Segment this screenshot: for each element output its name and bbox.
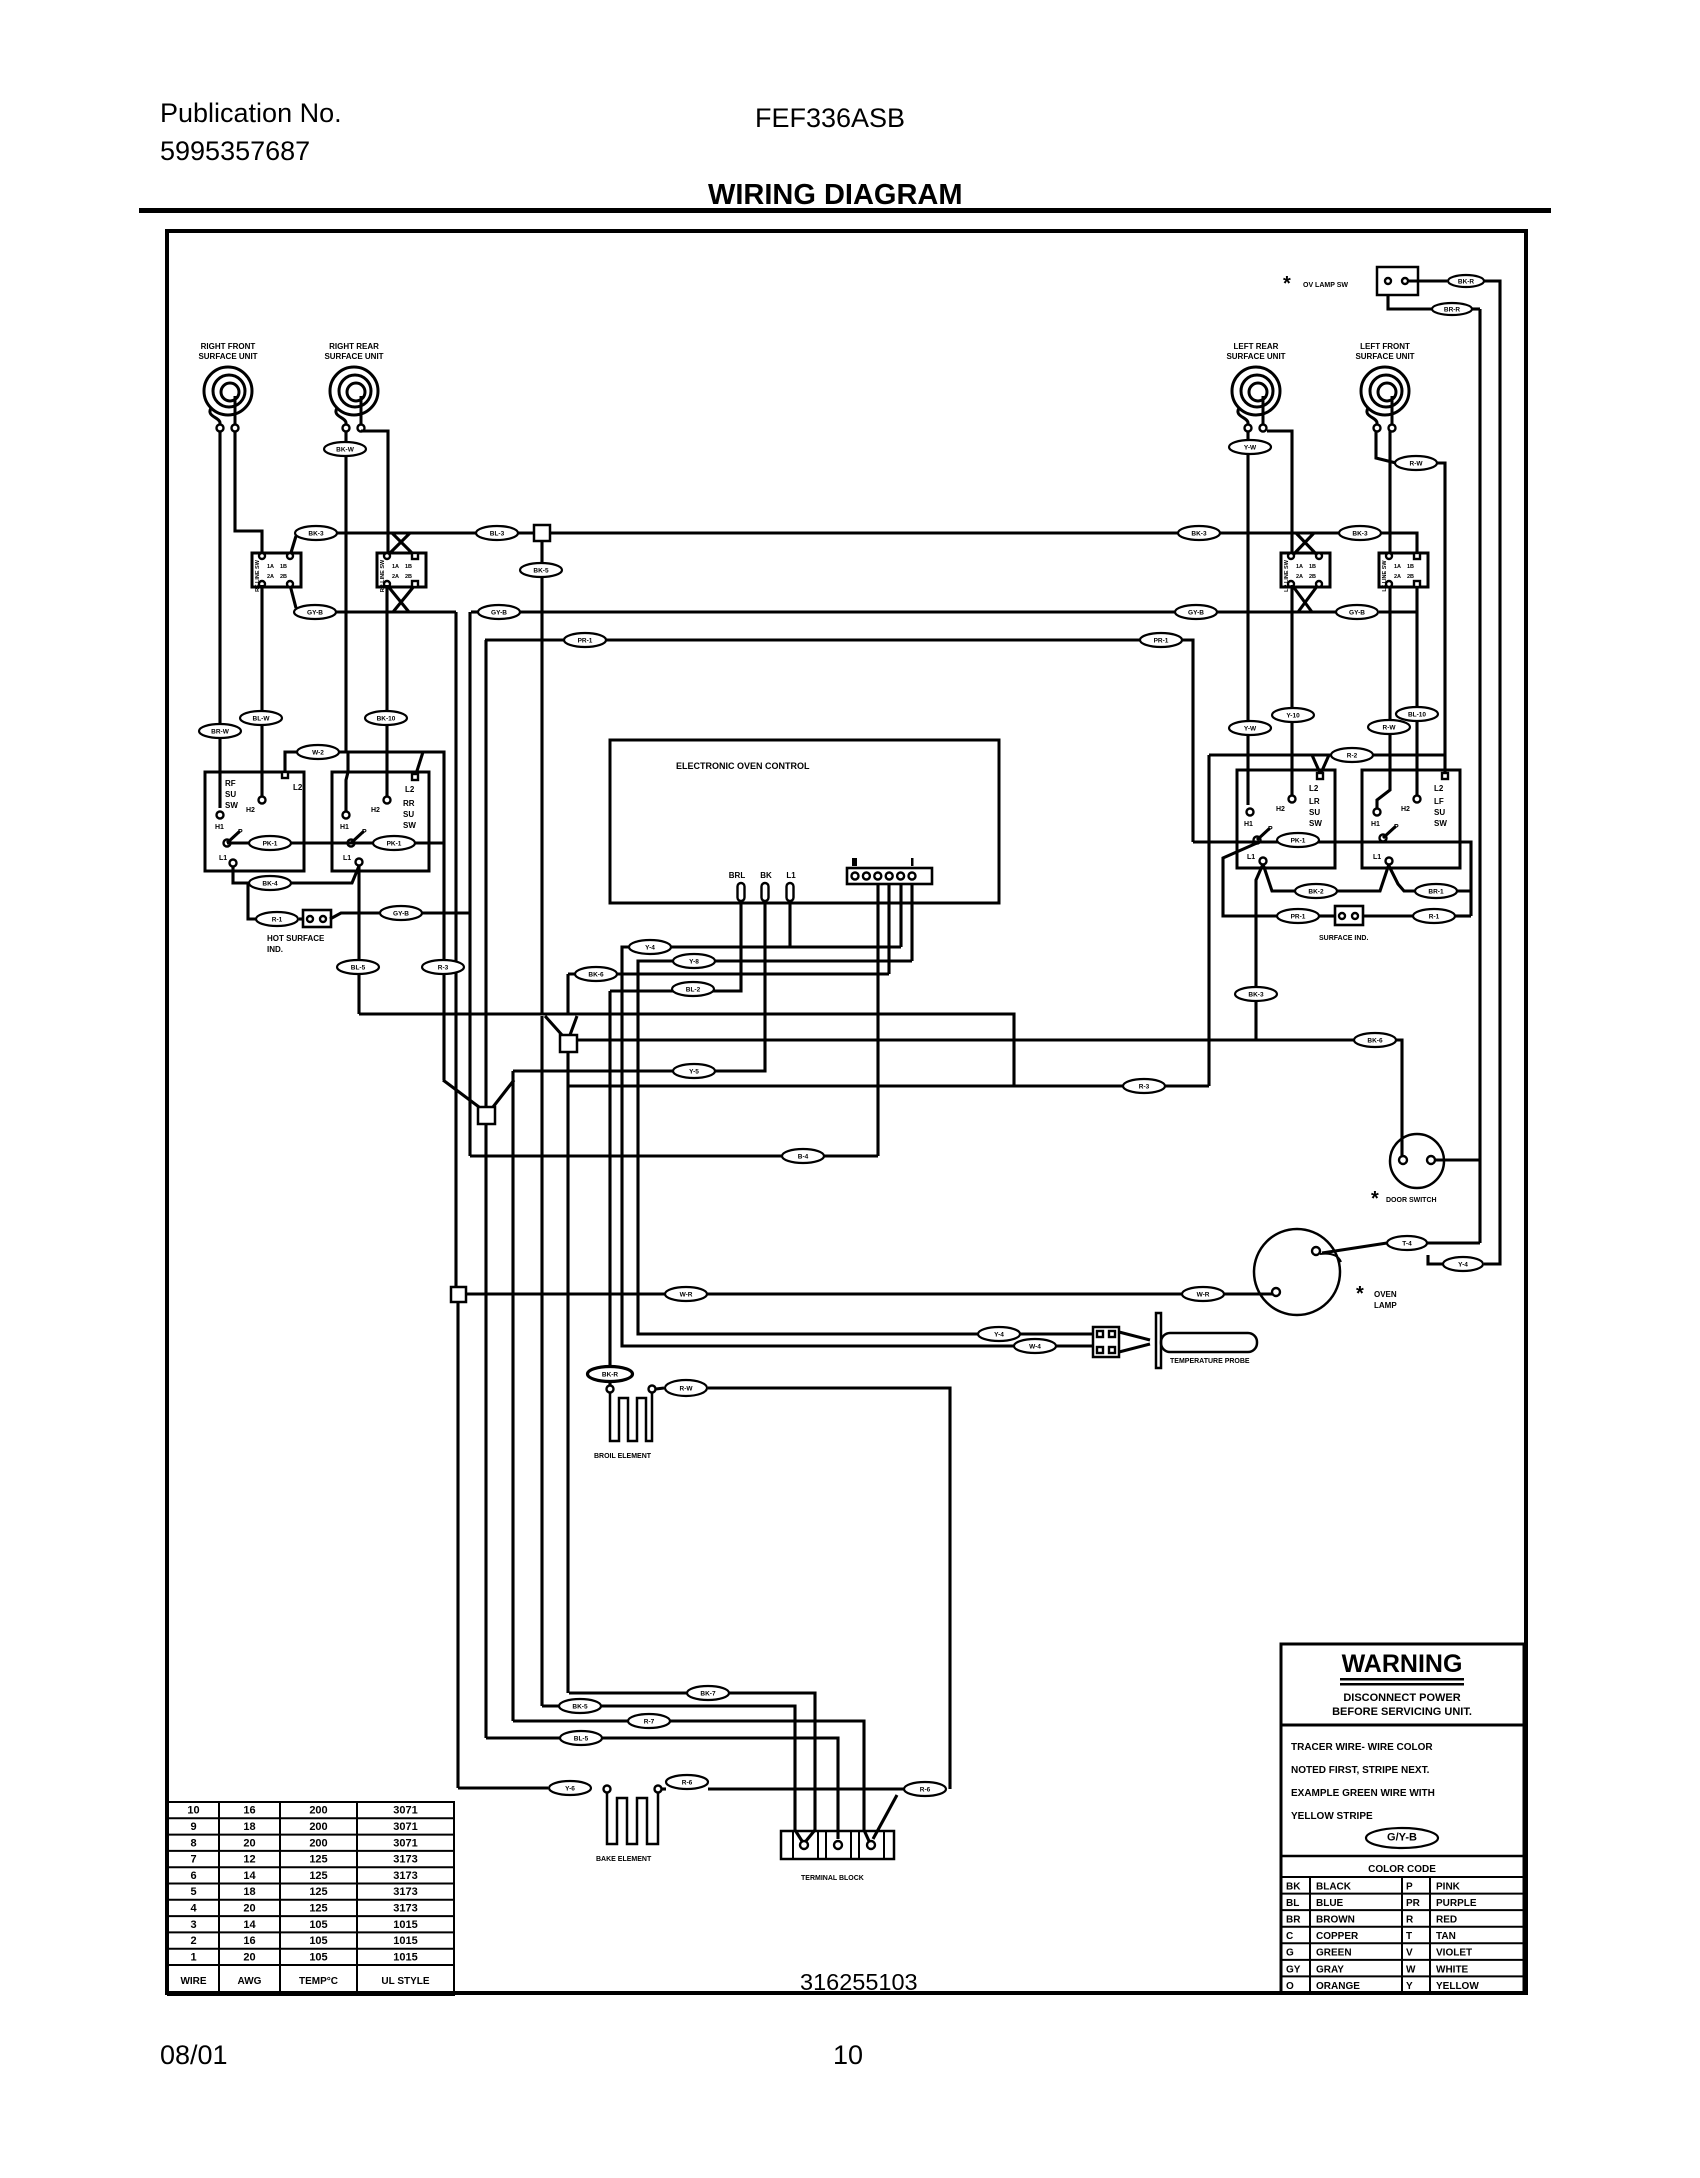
connector GY-B — [1175, 605, 1217, 619]
svg-text:200: 200 — [309, 1805, 327, 1817]
connector GY-B — [478, 605, 520, 619]
wire PR drop — [484, 640, 487, 1107]
connector BR-1 — [1415, 884, 1457, 898]
wire — [656, 1388, 664, 1389]
svg-text:6: 6 — [190, 1870, 196, 1882]
svg-text:RR LINE SW: RR LINE SW — [380, 559, 386, 592]
wire — [1472, 307, 1480, 310]
svg-text:SU: SU — [225, 790, 236, 799]
probe body — [1161, 1333, 1257, 1352]
wire BRL to broil — [610, 901, 741, 991]
svg-text:R-7: R-7 — [644, 1719, 655, 1726]
wire BK bus — [296, 531, 1340, 534]
svg-text:R-1: R-1 — [272, 917, 283, 924]
connector BK-R — [587, 1366, 633, 1382]
svg-text:316255103: 316255103 — [800, 1969, 918, 1995]
door switch — [1390, 1134, 1444, 1188]
svg-text:125: 125 — [309, 1886, 327, 1898]
svg-text:3173: 3173 — [393, 1886, 417, 1898]
svg-text:BK-3: BK-3 — [1248, 992, 1264, 999]
svg-text:R-2: R-2 — [1347, 753, 1358, 760]
svg-text:WIRE: WIRE — [180, 1976, 206, 1987]
connector R-6 — [666, 1775, 708, 1789]
EOC pin BRL — [738, 883, 745, 901]
svg-text:3071: 3071 — [393, 1805, 417, 1817]
connector BL-5 — [337, 960, 379, 974]
wire y1156 — [470, 1154, 878, 1157]
wire — [1319, 914, 1335, 917]
svg-text:L2: L2 — [405, 785, 415, 794]
svg-text:L1: L1 — [1247, 854, 1255, 861]
wire link to LF L2 — [1443, 755, 1446, 772]
wire oven lamp line — [466, 1292, 1274, 1295]
wire V right — [570, 1016, 577, 1035]
wire drop x568 — [566, 1086, 569, 1693]
svg-text:8: 8 — [190, 1837, 196, 1849]
connector Y-10 — [1272, 708, 1314, 722]
svg-text:20: 20 — [243, 1903, 255, 1915]
surface unit LR coil — [1232, 367, 1280, 424]
wire LR P lever — [1257, 828, 1270, 840]
warning box — [1281, 1644, 1524, 1993]
wire to probe low — [622, 947, 1093, 1346]
svg-text:GRAY: GRAY — [1316, 1964, 1344, 1975]
svg-text:2A: 2A — [392, 574, 399, 580]
wire GY stub — [471, 610, 478, 613]
svg-text:IND.: IND. — [267, 945, 283, 954]
svg-text:BK-5: BK-5 — [533, 568, 549, 575]
wire RR 2B to GY — [393, 585, 415, 612]
svg-text:1A: 1A — [392, 564, 399, 570]
connector BK-R — [588, 1367, 632, 1381]
connector BL-W — [240, 711, 282, 725]
connector BR-W — [199, 724, 241, 738]
svg-text:R-1: R-1 — [1429, 914, 1440, 921]
svg-text:3071: 3071 — [393, 1837, 417, 1849]
wire RR L2 drop — [423, 752, 444, 1080]
svg-text:TEMP°C: TEMP°C — [299, 1976, 338, 1987]
svg-text:PK-1: PK-1 — [1291, 838, 1306, 845]
connector R-W — [665, 1380, 707, 1396]
switch RF SU SW — [205, 772, 304, 871]
wire GY drop to hot surface ind — [468, 612, 471, 913]
svg-text:1B: 1B — [1309, 564, 1316, 570]
switch RF LINE SW — [252, 553, 301, 592]
svg-text:BL-10: BL-10 — [1408, 712, 1426, 719]
wire hot ind to GY — [330, 913, 470, 919]
svg-text:08/01: 08/01 — [160, 2040, 228, 2070]
svg-text:H2: H2 — [1401, 806, 1410, 813]
svg-text:Y-5: Y-5 — [689, 1069, 699, 1076]
wire BK bus to LF line sw — [1380, 533, 1417, 556]
svg-text:WIRING DIAGRAM: WIRING DIAGRAM — [708, 179, 963, 211]
svg-text:125: 125 — [309, 1903, 327, 1915]
svg-text:BK-W: BK-W — [336, 447, 355, 454]
svg-text:COPPER: COPPER — [1316, 1931, 1359, 1942]
switch LF LINE SW — [1379, 553, 1428, 592]
connector R-3 — [1123, 1079, 1165, 1093]
svg-text:2B: 2B — [405, 574, 412, 580]
wire — [299, 917, 303, 920]
wire V3 right — [493, 1080, 514, 1107]
wire to terminal — [873, 1795, 897, 1839]
connector BK-2 — [1295, 884, 1337, 898]
svg-text:9: 9 — [190, 1821, 196, 1833]
svg-text:200: 200 — [309, 1821, 327, 1833]
wire LF L1 to BR-1 — [1389, 866, 1471, 891]
wire — [1455, 914, 1471, 917]
wire RF 2A to H2 — [260, 585, 263, 797]
svg-text:1A: 1A — [1394, 564, 1401, 570]
svg-text:20: 20 — [243, 1837, 255, 1849]
svg-text:RF LINE SW: RF LINE SW — [255, 559, 261, 592]
svg-text:12: 12 — [243, 1854, 255, 1866]
wire LR P to surface ind — [1223, 843, 1278, 916]
connector GY-B — [1336, 605, 1378, 619]
svg-text:BR: BR — [1286, 1915, 1301, 1926]
wire — [1388, 295, 1432, 309]
svg-text:LEFT REAR: LEFT REAR — [1234, 342, 1279, 351]
wire lamp switch drop 2 — [1484, 288, 1500, 1264]
wire strip pin drop — [876, 884, 879, 1156]
wire — [1484, 281, 1500, 288]
switch RR SU SW — [332, 772, 429, 871]
pins LR SU SW — [1317, 773, 1323, 779]
svg-text:LAMP: LAMP — [1374, 1301, 1397, 1310]
svg-text:3173: 3173 — [393, 1903, 417, 1915]
svg-text:1A: 1A — [1296, 564, 1303, 570]
svg-text:*: * — [1283, 273, 1291, 295]
svg-text:YELLOW STRIPE: YELLOW STRIPE — [1291, 1811, 1373, 1822]
bake terminal left — [604, 1786, 611, 1793]
svg-text:4: 4 — [190, 1903, 197, 1915]
svg-text:Y-4: Y-4 — [1458, 1262, 1468, 1269]
connector GY-B — [380, 906, 422, 920]
svg-text:TERMINAL BLOCK: TERMINAL BLOCK — [801, 1875, 864, 1882]
wire L2 link left — [285, 752, 423, 775]
switch LF SU SW — [1362, 770, 1460, 868]
svg-text:H2: H2 — [1276, 806, 1285, 813]
temperature probe connector — [1093, 1327, 1119, 1357]
connector BK-R — [1448, 275, 1484, 287]
wire gauge table — [168, 1802, 454, 1995]
svg-text:BL-5: BL-5 — [351, 965, 366, 972]
wire coil RF right pin to RF line sw — [235, 431, 262, 553]
surface unit RF coil — [204, 367, 252, 424]
svg-text:RED: RED — [1436, 1915, 1457, 1926]
wire RR 2A to H2 — [385, 585, 388, 796]
connector R-2 — [1331, 748, 1373, 762]
connector W-4 — [1014, 1339, 1056, 1353]
svg-text:R-6: R-6 — [682, 1780, 693, 1787]
svg-text:SURFACE UNIT: SURFACE UNIT — [1355, 352, 1414, 361]
pins RF SU SW — [282, 772, 288, 778]
wire — [662, 1787, 666, 1790]
connector BK-3 — [295, 526, 337, 540]
bake element — [607, 1793, 658, 1844]
wire LR 2A to H2 — [1290, 585, 1293, 796]
svg-text:W: W — [1406, 1964, 1416, 1975]
hot surface indicator — [303, 910, 331, 927]
wire — [1363, 914, 1414, 917]
wire probe taper bottom — [1119, 1344, 1150, 1352]
wire GY bus end — [1379, 610, 1417, 613]
connector Y-4 — [629, 940, 671, 954]
switch LR SU SW — [1237, 770, 1335, 868]
wire V3 left — [443, 1080, 479, 1107]
wire P bus right — [1193, 840, 1471, 843]
wire P bus to surface ind — [1383, 842, 1471, 916]
wire LF 2B to H2 — [1415, 587, 1418, 796]
wire bus to RR pin 1A — [387, 533, 410, 556]
svg-text:TAN: TAN — [1436, 1931, 1456, 1942]
wire bus to LR pin 1A — [1292, 533, 1314, 556]
wire junction1 drop — [540, 540, 543, 1014]
EOC pin BK — [762, 883, 769, 901]
switch RR LINE SW — [377, 553, 426, 592]
connector R-1 — [1413, 909, 1455, 923]
svg-text:Y-10: Y-10 — [1286, 713, 1300, 720]
lamp filament hook — [1320, 1254, 1341, 1262]
surface indicator — [1335, 906, 1363, 925]
svg-text:BK-6: BK-6 — [588, 972, 604, 979]
svg-text:BR-W: BR-W — [211, 729, 230, 736]
svg-text:TEMPERATURE PROBE: TEMPERATURE PROBE — [1170, 1358, 1250, 1365]
connector BK-10 — [365, 711, 407, 725]
connector Y-W — [1229, 721, 1271, 735]
svg-text:W-4: W-4 — [1029, 1344, 1041, 1351]
wire line3 — [513, 1721, 869, 1841]
svg-text:H2: H2 — [371, 807, 380, 814]
EOC pin L1 — [787, 883, 794, 901]
wire link y1086 — [568, 1084, 1209, 1087]
connector PR-1 — [564, 633, 606, 647]
svg-text:GREEN: GREEN — [1316, 1948, 1352, 1959]
connector Y-8 — [673, 954, 715, 968]
oven lamp — [1254, 1229, 1340, 1315]
svg-text:16: 16 — [243, 1805, 255, 1817]
svg-text:PR: PR — [1406, 1898, 1421, 1909]
svg-text:ELECTRONIC OVEN CONTROL: ELECTRONIC OVEN CONTROL — [676, 761, 810, 771]
wire coil LR right pin to LR line sw — [1267, 431, 1292, 553]
wire — [1409, 279, 1447, 282]
connector BK-5 — [559, 1699, 601, 1713]
connector Y-4 — [1443, 1257, 1483, 1271]
svg-text:125: 125 — [309, 1870, 327, 1882]
svg-text:1B: 1B — [405, 564, 412, 570]
svg-text:SURFACE IND.: SURFACE IND. — [1319, 935, 1368, 942]
svg-text:10: 10 — [187, 1805, 199, 1817]
svg-text:H1: H1 — [340, 824, 349, 831]
svg-text:3: 3 — [190, 1919, 196, 1931]
svg-text:10: 10 — [833, 2040, 863, 2070]
connector W-R — [665, 1287, 707, 1301]
svg-text:HOT SURFACE: HOT SURFACE — [267, 934, 325, 943]
svg-text:BK-6: BK-6 — [1367, 1038, 1383, 1045]
svg-text:BL-3: BL-3 — [490, 531, 505, 538]
svg-text:*: * — [1371, 1188, 1379, 1210]
bake terminal right — [655, 1786, 662, 1793]
svg-text:PK-1: PK-1 — [263, 841, 278, 848]
svg-text:H1: H1 — [1244, 821, 1253, 828]
svg-text:200: 200 — [309, 1837, 327, 1849]
connector BK-6 — [1354, 1033, 1396, 1047]
connector BR-R — [1432, 303, 1472, 315]
svg-text:T-4: T-4 — [1402, 1241, 1412, 1248]
svg-text:16: 16 — [243, 1935, 255, 1947]
wire L1 link right — [1263, 864, 1389, 891]
svg-text:1015: 1015 — [393, 1935, 417, 1947]
svg-text:Y-4: Y-4 — [645, 945, 655, 952]
svg-text:2A: 2A — [1394, 574, 1401, 580]
wire strip pin drop — [887, 884, 890, 974]
svg-text:PR-1: PR-1 — [578, 638, 593, 645]
svg-text:G/Y-B: G/Y-B — [1387, 1832, 1417, 1844]
svg-text:ORANGE: ORANGE — [1316, 1981, 1360, 1992]
connector BL-2 — [672, 982, 714, 996]
svg-text:WARNING: WARNING — [1342, 1650, 1463, 1678]
connector BK-7 — [687, 1686, 729, 1700]
wire coil LF left pin to R connector — [1376, 431, 1396, 463]
svg-text:7: 7 — [190, 1854, 196, 1866]
diagram border — [167, 231, 1526, 1993]
svg-text:OV LAMP SW: OV LAMP SW — [1303, 282, 1348, 289]
wire L2 link drop — [1207, 755, 1210, 1086]
svg-text:WHITE: WHITE — [1436, 1964, 1469, 1975]
svg-text:H2: H2 — [246, 807, 255, 814]
wire link to RR H1 — [346, 752, 348, 812]
connector BK-3 — [1235, 987, 1277, 1001]
svg-text:UL STYLE: UL STYLE — [381, 1976, 429, 1987]
svg-text:2A: 2A — [267, 574, 274, 580]
svg-text:BK-5: BK-5 — [572, 1704, 588, 1711]
connector W-2 — [297, 745, 339, 759]
wire GY segment A — [333, 610, 456, 613]
svg-text:BROWN: BROWN — [1316, 1915, 1355, 1926]
svg-text:GY-B: GY-B — [491, 610, 507, 617]
svg-text:L1: L1 — [1373, 854, 1381, 861]
svg-text:OVEN: OVEN — [1374, 1290, 1397, 1299]
svg-text:BEFORE SERVICING UNIT.: BEFORE SERVICING UNIT. — [1332, 1706, 1472, 1718]
wire bus to RR pin 1B — [392, 533, 415, 556]
wire RR P lever — [351, 831, 364, 843]
svg-text:20: 20 — [243, 1951, 255, 1963]
svg-text:1015: 1015 — [393, 1919, 417, 1931]
wire y974 drop — [566, 974, 569, 1014]
pins LF SU SW — [1442, 773, 1448, 779]
connector BK-3 — [1178, 526, 1220, 540]
wire door switch right — [1435, 1158, 1480, 1161]
wire RR L1 drop — [357, 866, 360, 1014]
wire RF sw to BK bus — [290, 536, 296, 556]
svg-text:18: 18 — [243, 1821, 255, 1833]
connector W-R — [1182, 1287, 1224, 1301]
svg-text:T: T — [1406, 1931, 1412, 1942]
wire strip pin drop — [899, 884, 902, 947]
svg-text:BL: BL — [1286, 1898, 1299, 1909]
svg-text:BLACK: BLACK — [1316, 1881, 1352, 1892]
svg-text:14: 14 — [243, 1919, 256, 1931]
wire LF P lever — [1383, 826, 1396, 838]
broil terminal right — [649, 1386, 656, 1393]
junction BK bus — [534, 525, 550, 541]
wire lamp switch drop 1 — [1478, 309, 1481, 1243]
connector PK-1 — [373, 836, 415, 850]
svg-text:LF LINE SW: LF LINE SW — [1382, 560, 1388, 592]
svg-text:LF: LF — [1434, 797, 1444, 806]
svg-text:BK-7: BK-7 — [700, 1691, 716, 1698]
wire LR L1 drop — [1256, 864, 1263, 1040]
svg-text:PR-1: PR-1 — [1291, 914, 1306, 921]
wire probe taper top — [1119, 1332, 1150, 1340]
wire coil RR left pin down — [344, 431, 347, 752]
svg-text:L1: L1 — [786, 871, 796, 880]
svg-text:R-3: R-3 — [438, 965, 449, 972]
wire line4 — [486, 1738, 838, 1839]
connector R-7 — [628, 1714, 670, 1728]
surface unit RR coil — [330, 367, 378, 424]
svg-text:R-3: R-3 — [1139, 1084, 1150, 1091]
wire LF 2A to H1 — [1377, 587, 1390, 809]
wire bus to LR pin 1B — [1296, 533, 1318, 556]
svg-text:L2: L2 — [1309, 784, 1319, 793]
svg-text:1: 1 — [190, 1951, 196, 1963]
svg-text:R-W: R-W — [680, 1386, 694, 1393]
svg-text:SW: SW — [1309, 819, 1322, 828]
wire LR 2A to GY — [1292, 585, 1312, 612]
svg-text:BK-3: BK-3 — [1191, 531, 1207, 538]
svg-text:5: 5 — [190, 1886, 196, 1898]
svg-text:BAKE ELEMENT: BAKE ELEMENT — [596, 1856, 652, 1863]
wire LR 2B to GY — [1298, 585, 1318, 612]
connector BK-W — [324, 442, 366, 456]
wire EOC BK line — [513, 904, 765, 1071]
svg-text:R: R — [1406, 1915, 1414, 1926]
wire coil RF left pin to H1 — [218, 431, 221, 808]
wire strip pin drop — [910, 884, 913, 961]
svg-text:105: 105 — [309, 1951, 327, 1963]
wire to door switch — [577, 1040, 1402, 1156]
connector R-W — [1395, 456, 1437, 470]
svg-text:L2: L2 — [1434, 784, 1444, 793]
svg-text:LR: LR — [1309, 797, 1320, 806]
svg-text:YELLOW: YELLOW — [1436, 1981, 1479, 1992]
wire V to LR L2 — [1312, 755, 1320, 773]
junction 3 — [478, 1107, 495, 1124]
svg-text:BRL: BRL — [729, 871, 746, 880]
svg-text:SURFACE UNIT: SURFACE UNIT — [324, 352, 383, 361]
svg-text:GY-B: GY-B — [1349, 610, 1365, 617]
svg-text:BK: BK — [760, 871, 772, 880]
svg-text:TRACER WIRE- WIRE COLOR: TRACER WIRE- WIRE COLOR — [1291, 1742, 1433, 1753]
svg-text:C: C — [1286, 1931, 1293, 1942]
svg-text:105: 105 — [309, 1935, 327, 1947]
OV LAMP SW box — [1377, 267, 1418, 295]
svg-text:H1: H1 — [1371, 821, 1380, 828]
svg-text:G: G — [1286, 1948, 1294, 1959]
strip mark A — [852, 858, 857, 866]
wire door to T connector — [1426, 1241, 1480, 1244]
wire P bus left — [227, 841, 444, 844]
connector Y-4 — [978, 1327, 1020, 1341]
connector PK-1 — [1277, 833, 1319, 847]
connector Y-W — [1229, 440, 1271, 454]
connector PR-1 — [1140, 633, 1182, 647]
svg-text:BK-R: BK-R — [602, 1372, 619, 1379]
svg-text:W-2: W-2 — [312, 750, 324, 757]
connector R-6 — [904, 1782, 946, 1796]
wire junction2 down — [566, 1052, 569, 1086]
